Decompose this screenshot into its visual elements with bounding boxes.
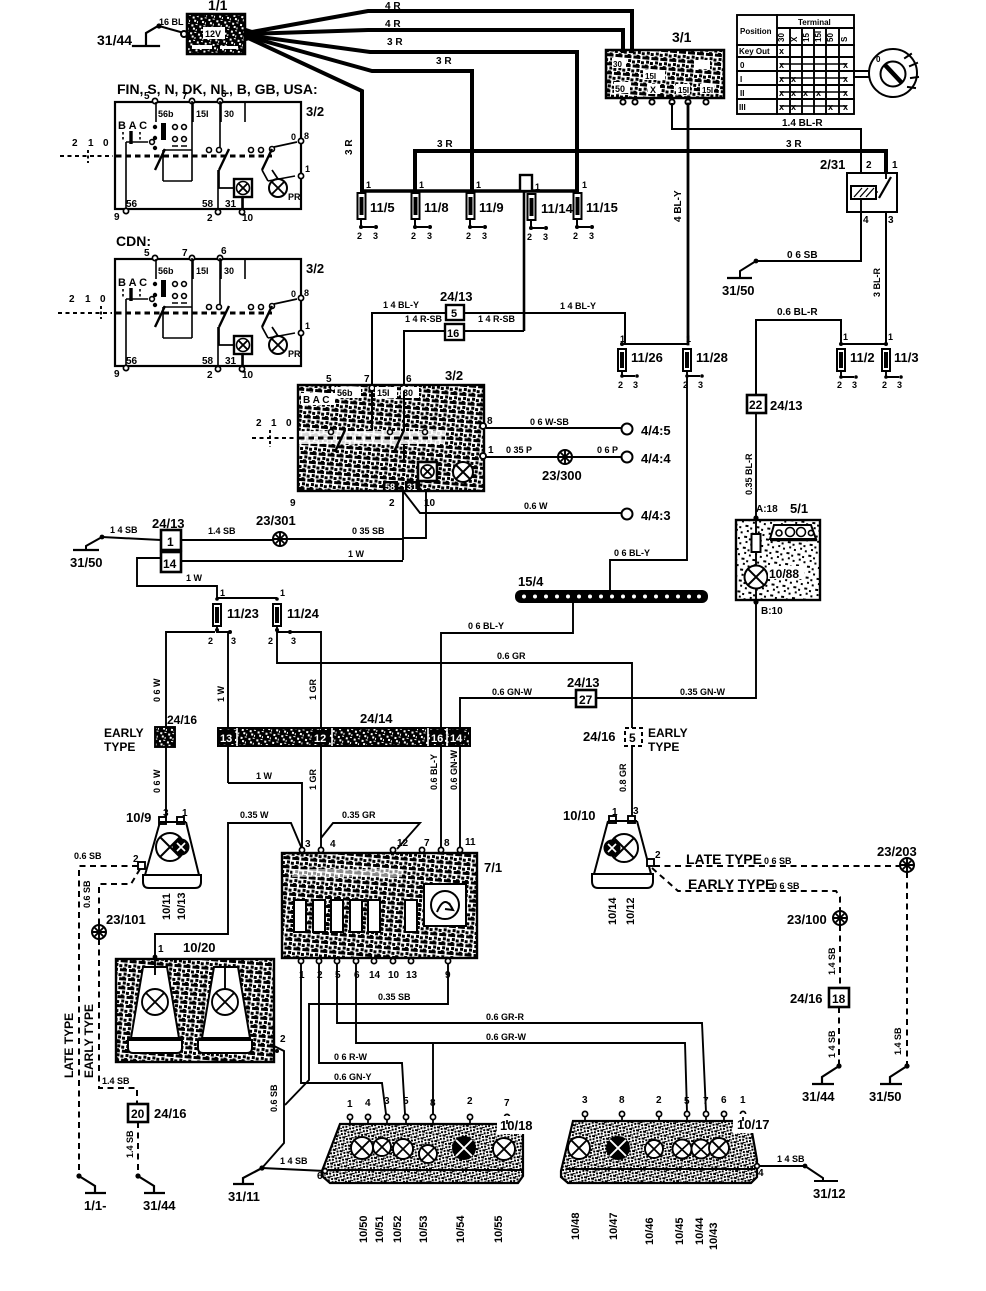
wire 3 R (line 3 to fuse 11/15): [246, 35, 577, 191]
svg-text:3: 3: [633, 380, 638, 390]
wire 0.6 GR-W (7/1 pin 6 to 10/18 pin 8 and 10/17 pin 5): [356, 964, 687, 1114]
svg-text:7: 7: [364, 374, 370, 385]
svg-text:1: 1: [888, 332, 893, 342]
svg-text:1 GR: 1 GR: [308, 678, 318, 700]
svg-text:2: 2: [268, 636, 273, 646]
svg-text:10/20: 10/20: [183, 940, 216, 955]
lamp assembly 10/10 (right front): [563, 806, 661, 888]
svg-text:10/50: 10/50: [358, 1215, 370, 1243]
svg-text:11: 11: [465, 837, 476, 848]
wire 0.6 SB (10/20 pin 2 to ground 31/11): [262, 1046, 284, 1168]
fuse 11/8: [411, 180, 449, 241]
svg-text:B A C: B A C: [118, 120, 147, 132]
svg-text:3 R: 3 R: [387, 37, 403, 48]
svg-text:1 W: 1 W: [348, 549, 365, 559]
svg-text:24/13: 24/13: [567, 675, 600, 690]
wire 0.6 SB early type (lamp 10/10 pin 2 to splice 23/100): [652, 868, 840, 911]
fuse 11/14: [527, 182, 574, 242]
svg-text:1: 1: [686, 334, 691, 344]
svg-text:5: 5: [144, 91, 150, 102]
svg-text:10/46: 10/46: [644, 1217, 656, 1245]
svg-text:9: 9: [290, 498, 296, 509]
svg-text:1 4 R-SB: 1 4 R-SB: [405, 314, 443, 324]
wire 4 BL-Y (3/1 to fuse 11/28): [673, 104, 688, 344]
wire 0.6 BL-Y (strip 15/4 down-left to 7/1 pin 8): [429, 603, 573, 849]
svg-text:x: x: [791, 88, 796, 98]
node 4/4:4: [622, 452, 633, 463]
svg-text:5: 5: [335, 970, 341, 981]
light switch 3/2 (main, textured): [298, 368, 484, 492]
svg-text:31/50: 31/50: [70, 555, 103, 570]
svg-text:1: 1: [488, 445, 494, 456]
svg-text:2/31: 2/31: [820, 157, 845, 172]
node 4/4:3: [622, 509, 633, 520]
svg-text:0.35 SB: 0.35 SB: [378, 992, 411, 1002]
wire 4 R (line 1 to 3/1): [246, 1, 632, 51]
row contact circles: [207, 147, 275, 153]
ground 1/1- (late): [76, 1173, 106, 1213]
svg-text:23/203: 23/203: [877, 844, 917, 859]
svg-text:24/13: 24/13: [440, 289, 473, 304]
bus linking fuse 11/2 and 11/3 tops: [841, 343, 886, 345]
fuse 11/5: [357, 180, 395, 241]
svg-text:1: 1: [892, 160, 898, 171]
svg-text:1 4 SB: 1 4 SB: [110, 525, 138, 535]
pin stubs into 3/1 top: [621, 42, 625, 51]
svg-text:3: 3: [384, 1096, 390, 1107]
svg-text:20: 20: [131, 1107, 145, 1121]
svg-text:x: x: [816, 88, 821, 98]
svg-text:8: 8: [619, 1095, 625, 1106]
svg-text:1 4 SB: 1 4 SB: [777, 1154, 805, 1164]
svg-text:2: 2: [389, 498, 395, 509]
svg-text:11/3: 11/3: [894, 350, 919, 365]
svg-text:1.4 SB: 1.4 SB: [893, 1027, 903, 1055]
svg-text:15I: 15I: [196, 109, 209, 119]
svg-text:x: x: [779, 60, 784, 70]
svg-text:3/2: 3/2: [445, 368, 463, 383]
svg-text:0.6 GN-W: 0.6 GN-W: [449, 749, 459, 790]
ignition switch 3/1: [606, 29, 724, 98]
svg-text:50: 50: [826, 33, 835, 42]
svg-text:0 6 SB: 0 6 SB: [787, 250, 818, 261]
right bulb pocket: [198, 965, 252, 1053]
svg-text:15I: 15I: [814, 31, 823, 42]
svg-text:1 4 BL-Y: 1 4 BL-Y: [560, 301, 596, 311]
wire 0.6 BL-R (box 22 riser to fuse 11/2): [756, 307, 841, 396]
svg-text:1: 1: [88, 138, 94, 149]
svg-text:2: 2: [317, 970, 323, 981]
3/2 right pin 8 / wire 0.6 W-SB to 4/4:5: [480, 416, 621, 429]
svg-text:15I: 15I: [645, 72, 656, 81]
illumination lamp (boxed X): [234, 179, 252, 210]
svg-text:X: X: [650, 85, 656, 95]
svg-text:x: x: [828, 102, 833, 112]
fuse 11/3: [882, 332, 919, 390]
svg-text:2: 2: [882, 380, 887, 390]
svg-text:x: x: [779, 74, 784, 84]
connector 24/16 pin 20: [128, 1104, 187, 1122]
svg-text:0.35 GR: 0.35 GR: [342, 810, 376, 820]
svg-text:2: 2: [69, 294, 75, 305]
svg-text:5: 5: [684, 1096, 690, 1107]
svg-text:0 35 P: 0 35 P: [506, 445, 532, 455]
left bulb pocket: [128, 957, 182, 1053]
svg-text:x: x: [779, 88, 784, 98]
wire 0.6 GR (fuse 11/24 pin 2 to 24/16-5): [277, 630, 632, 729]
svg-text:3: 3: [291, 636, 296, 646]
illumination lamp (boxed X): [418, 462, 437, 481]
left travel scale 2 1 0 (CDN): [58, 294, 112, 319]
switch blades: [155, 149, 272, 170]
instrument module 5/1: [736, 501, 820, 601]
svg-text:58: 58: [385, 482, 395, 492]
svg-text:15/4: 15/4: [518, 574, 544, 589]
svg-text:6: 6: [354, 970, 360, 981]
svg-text:0: 0: [103, 138, 109, 149]
svg-text:6: 6: [721, 1095, 727, 1106]
svg-text:I: I: [740, 75, 742, 84]
svg-text:23/100: 23/100: [787, 912, 827, 927]
dashed 1.4 SB (23/100 to 24/16-18): [827, 925, 840, 988]
svg-text:7: 7: [424, 838, 430, 849]
svg-text:1: 1: [167, 535, 174, 549]
svg-text:1.4 SB: 1.4 SB: [125, 1130, 135, 1158]
svg-text:1: 1: [582, 180, 587, 190]
svg-text:x: x: [779, 46, 784, 56]
svg-text:1: 1: [843, 332, 848, 342]
5/1 pin B:10: [753, 599, 783, 617]
labels 10/50..10/55: [358, 1215, 505, 1243]
svg-text:23/101: 23/101: [106, 912, 146, 927]
svg-text:1 W: 1 W: [256, 771, 273, 781]
wire 3 BL-R (relay pin 3 down to fuses 11/2,11/3): [872, 212, 886, 344]
svg-text:0: 0: [876, 55, 881, 64]
connector strip 15/4: [515, 574, 708, 603]
svg-text:1: 1: [740, 1095, 746, 1106]
svg-text:3: 3: [543, 232, 548, 242]
svg-text:0: 0: [291, 132, 296, 142]
svg-text:3 R: 3 R: [437, 139, 453, 150]
svg-text:Key Out: Key Out: [739, 47, 770, 56]
ignition position table: [737, 15, 854, 114]
svg-text:11/15: 11/15: [586, 200, 618, 215]
svg-text:12: 12: [397, 838, 409, 849]
svg-text:1: 1: [347, 1099, 353, 1110]
wire 1.4 BL-R (3/1 to relay 2/31 pin 2): [672, 104, 861, 173]
svg-text:0: 0: [740, 61, 745, 70]
svg-text:24/16: 24/16: [167, 713, 197, 727]
wire 0.8 GR (24/16-5 to lamp 10/10 pin 3): [618, 746, 632, 817]
connector strip 24/14: [218, 711, 470, 746]
wire 0.6 W (pin 2 to 4/4:3): [403, 491, 621, 513]
svg-text:8: 8: [444, 838, 450, 849]
svg-text:0.8 GR: 0.8 GR: [618, 763, 628, 792]
bulbs: [568, 1137, 729, 1159]
svg-text:0 6 SB: 0 6 SB: [764, 856, 792, 866]
svg-text:3 R: 3 R: [786, 139, 802, 150]
svg-text:10/43: 10/43: [708, 1222, 720, 1250]
svg-text:1: 1: [476, 180, 481, 190]
svg-text:31/44: 31/44: [143, 1198, 176, 1213]
splice 23/301: [273, 532, 287, 546]
svg-text:0.6 GN-W: 0.6 GN-W: [492, 687, 533, 697]
bulbs: [351, 1137, 515, 1163]
svg-text:4/4:4: 4/4:4: [641, 451, 671, 466]
svg-text:1 W: 1 W: [216, 685, 226, 702]
svg-text:3: 3: [373, 231, 378, 241]
svg-text:1.4 SB: 1.4 SB: [102, 1076, 130, 1086]
svg-text:1: 1: [419, 180, 424, 190]
connector 24/13 pin 22: [747, 395, 803, 413]
ground 31/50 (left): [70, 550, 103, 570]
wire 1.4 SB (10/17 pin 4 to ground 31/12): [760, 1154, 846, 1201]
svg-text:14: 14: [450, 733, 463, 745]
ground 31/50 (bottom right): [869, 1063, 910, 1104]
lamp assembly 10/20: [116, 940, 286, 1062]
svg-text:50: 50: [615, 84, 625, 94]
svg-text:1.4 SB: 1.4 SB: [208, 526, 236, 536]
light switch 3/2 (CDN variant): [114, 246, 324, 381]
svg-text:0.6 BL-Y: 0.6 BL-Y: [429, 754, 439, 790]
svg-text:10/52: 10/52: [392, 1215, 404, 1243]
wire 0.35 W (tap to lamp 10/20 pin 1): [155, 810, 302, 957]
svg-text:11/2: 11/2: [850, 350, 875, 365]
svg-text:31/44: 31/44: [97, 32, 132, 48]
wire 1.4 SB / 0.35 SB (24/13-1 via splice 23/301 to switch): [181, 526, 273, 540]
svg-text:Terminal: Terminal: [798, 18, 831, 27]
svg-text:24/16: 24/16: [790, 991, 823, 1006]
svg-text:x: x: [843, 88, 848, 98]
svg-text:15I: 15I: [702, 86, 713, 95]
svg-text:18: 18: [832, 992, 846, 1006]
connector above fuse 11/14: [520, 175, 532, 191]
wire 1.4 SB (ground 31/50 to 24/13-1): [86, 525, 161, 550]
connector 24/16 (early type, left): [104, 713, 197, 754]
svg-text:10/45: 10/45: [674, 1217, 686, 1245]
wire 4 R (line 2 to 3/1): [246, 19, 623, 51]
svg-text:B A C: B A C: [303, 395, 329, 406]
svg-text:x: x: [779, 102, 784, 112]
svg-text:1: 1: [271, 418, 277, 429]
pilot lamp: [453, 462, 473, 482]
dashed 1.4 SB (23/203 to ground 31/50): [893, 872, 907, 1066]
svg-text:8: 8: [487, 416, 493, 427]
svg-text:24/16: 24/16: [583, 729, 616, 744]
svg-text:TYPE: TYPE: [104, 740, 135, 754]
svg-text:31/50: 31/50: [722, 283, 755, 298]
svg-text:5: 5: [451, 308, 457, 320]
fuse 11/15: [573, 180, 618, 241]
7/1 bottom pins: [298, 958, 450, 963]
svg-text:4: 4: [758, 1168, 764, 1179]
svg-text:EARLY TYPE: EARLY TYPE: [82, 1004, 96, 1078]
svg-text:31/11: 31/11: [228, 1189, 260, 1204]
svg-text:1: 1: [305, 164, 310, 174]
table X marks and row links: [779, 46, 848, 112]
svg-text:LATE TYPE: LATE TYPE: [62, 1013, 76, 1078]
svg-text:31: 31: [407, 482, 417, 492]
svg-text:16: 16: [431, 733, 443, 745]
svg-text:1: 1: [535, 182, 540, 192]
svg-text:9: 9: [114, 212, 120, 223]
svg-text:10/54: 10/54: [455, 1215, 467, 1243]
fuse 11/28: [683, 334, 728, 390]
svg-text:7: 7: [182, 91, 188, 102]
light switch 3/2 (FIN variant): [114, 89, 324, 224]
ground 31/50 (right of relay): [722, 278, 755, 298]
connector 24/13 pin 27: [567, 675, 600, 707]
wire 3 R (line 5 to fuse 11/5): [246, 37, 362, 191]
svg-text:0.35 GN-W: 0.35 GN-W: [680, 687, 726, 697]
splice 23/300: [558, 450, 572, 464]
svg-text:24/16: 24/16: [154, 1106, 187, 1121]
ground 31/44 (early): [135, 1173, 176, 1213]
svg-text:14: 14: [369, 970, 381, 981]
svg-text:30: 30: [777, 33, 786, 42]
svg-text:TYPE: TYPE: [648, 740, 679, 754]
fuse 11/26: [618, 334, 688, 390]
svg-text:6: 6: [317, 1171, 323, 1182]
fuse 11/23: [208, 588, 259, 646]
svg-text:1 4 BL-Y: 1 4 BL-Y: [383, 300, 419, 310]
wire 0.6 SB early (lamp 10/9 pin 2 to splice 23/101): [82, 869, 140, 925]
wire 1 W (24/14-13 to 7/1 pin 3): [228, 771, 302, 849]
lamp cluster 10/17 (rear right): [561, 1095, 788, 1183]
svg-text:10: 10: [388, 970, 400, 981]
svg-text:10/88: 10/88: [769, 567, 799, 581]
svg-text:6: 6: [406, 374, 412, 385]
svg-text:10/9: 10/9: [126, 810, 151, 825]
svg-text:3 BL-R: 3 BL-R: [872, 268, 882, 298]
wire 0.6 SB (relay pin 4 to ground 31/50): [740, 212, 861, 278]
svg-text:5/1: 5/1: [790, 501, 808, 516]
dashed 1.4 SB (24/16-18 to ground 31/44): [827, 1007, 839, 1066]
svg-text:10/18: 10/18: [500, 1118, 533, 1133]
battery 1/1: [187, 0, 245, 54]
svg-text:7: 7: [703, 1096, 709, 1107]
svg-text:11/26: 11/26: [631, 350, 663, 365]
wire 0.6 GR-R (7/1 pin 5 to lamp 10/17 pin 7): [337, 964, 706, 1112]
svg-text:0.6 GN-Y: 0.6 GN-Y: [334, 1072, 372, 1082]
svg-text:11/23: 11/23: [227, 606, 259, 621]
wire 1 W (24/13-14 down to fuses 11/23,11/24): [137, 558, 277, 598]
internal wires: [126, 101, 220, 209]
svg-text:0 6 R-W: 0 6 R-W: [334, 1052, 368, 1062]
ground 31/44 (bottom right): [802, 1063, 842, 1104]
svg-text:Position: Position: [740, 27, 772, 36]
svg-text:10/51: 10/51: [374, 1215, 386, 1243]
wire 0.35 BL-R (to 5/1 pin A:18): [744, 413, 756, 517]
dashed 1.4 SB (24/16-20 to ground 31/44): [125, 1122, 138, 1176]
svg-text:23/301: 23/301: [256, 513, 296, 528]
svg-text:2: 2: [527, 232, 532, 242]
svg-text:3: 3: [305, 839, 311, 850]
connector 24/16 pin 5 (early type, right): [583, 726, 688, 754]
svg-text:3/1: 3/1: [672, 29, 692, 45]
svg-text:III: III: [739, 103, 746, 112]
svg-text:8: 8: [304, 131, 309, 141]
wire 0.35 GR (7/1 pin 4 to pin 12 tap): [321, 810, 420, 849]
7/1 top pins: [299, 847, 462, 852]
wire 3 R (bus y151 from fuse 11/8 to relay pin 1): [415, 139, 886, 191]
svg-text:3: 3: [888, 215, 894, 226]
svg-text:X: X: [790, 36, 799, 42]
svg-text:2: 2: [467, 1096, 473, 1107]
svg-text:x: x: [843, 102, 848, 112]
svg-text:1/1-: 1/1-: [84, 1198, 106, 1213]
svg-text:1: 1: [280, 588, 285, 598]
svg-text:11/5: 11/5: [370, 200, 395, 215]
svg-text:0.35 W: 0.35 W: [240, 810, 269, 820]
svg-text:EARLY TYPE: EARLY TYPE: [688, 876, 774, 892]
svg-text:2: 2: [256, 418, 262, 429]
svg-text:1 4 SB: 1 4 SB: [827, 1030, 837, 1058]
wire 1 GR (fuse 11/24 pin 3 through 24/14-12 to 7/1 pin 4): [290, 632, 321, 849]
splice 23/203: [900, 858, 914, 872]
svg-text:24/14: 24/14: [360, 711, 393, 726]
svg-text:0 6 BL-Y: 0 6 BL-Y: [614, 548, 650, 558]
svg-text:2: 2: [837, 380, 842, 390]
svg-text:3: 3: [427, 231, 432, 241]
svg-text:0.6 GR: 0.6 GR: [497, 651, 526, 661]
svg-text:PR: PR: [288, 192, 301, 202]
svg-text:0 6 BL-Y: 0 6 BL-Y: [468, 621, 504, 631]
svg-text:0 6 SB: 0 6 SB: [772, 881, 800, 891]
wire 0.6 R-W (7/1 pin 2 to 10/18 pin 5): [319, 964, 405, 1114]
svg-text:3: 3: [589, 231, 594, 241]
svg-text:1.4 SB: 1.4 SB: [827, 947, 837, 975]
svg-text:10/14: 10/14: [607, 897, 619, 925]
svg-text:4: 4: [365, 1098, 371, 1109]
svg-text:0.6 SB: 0.6 SB: [269, 1084, 279, 1112]
wire 1.4 BL-Y (switch pin 7 to 24/13-5 to fuse 11/26): [372, 300, 625, 385]
relay 2/31: [820, 157, 898, 226]
wire 1 W (24/13-14 right side to switch riser): [181, 549, 403, 561]
svg-text:3 R: 3 R: [436, 56, 452, 67]
node / wire 1.4 SB to ground 31/11: [228, 1156, 325, 1204]
wire 0.6 GN-W (5/1 B:10 via 24/13-27 to 7/1 pin 11): [449, 604, 756, 849]
svg-text:0 35 SB: 0 35 SB: [352, 526, 385, 536]
svg-text:x: x: [843, 60, 848, 70]
svg-text:2: 2: [207, 213, 213, 224]
svg-text:11/9: 11/9: [479, 200, 504, 215]
svg-text:13: 13: [220, 733, 232, 745]
splice 23/101: [92, 925, 106, 939]
svg-text:x: x: [843, 74, 848, 84]
wire 0.6 BL-Y (fuse 11/28 to strip 15/4): [610, 376, 687, 591]
svg-text:1/1: 1/1: [208, 0, 228, 13]
svg-text:10/48: 10/48: [570, 1212, 582, 1240]
connector 24/16 pin 18: [790, 988, 849, 1007]
dashed 1.4 SB (23/101 down to 24/16-20): [99, 939, 137, 1105]
svg-text:11/24: 11/24: [287, 606, 320, 621]
svg-text:3: 3: [482, 231, 487, 241]
svg-text:0.35 BL-R: 0.35 BL-R: [744, 453, 754, 495]
key symbol: [854, 49, 918, 97]
svg-text:1: 1: [85, 294, 91, 305]
wire 1 W (fuse 11/23 pin 3 through 24/14-13): [216, 632, 230, 783]
supply bus over fuses 11/5-11/15: [362, 189, 577, 193]
svg-text:0 6 P: 0 6 P: [597, 445, 618, 455]
svg-text:30: 30: [224, 109, 234, 119]
svg-text:10/10: 10/10: [563, 808, 596, 823]
svg-text:4 BL-Y: 4 BL-Y: [673, 190, 684, 222]
svg-text:22: 22: [749, 398, 763, 412]
svg-text:5: 5: [403, 1096, 409, 1107]
svg-text:10: 10: [242, 213, 254, 224]
svg-text:4: 4: [330, 839, 336, 850]
